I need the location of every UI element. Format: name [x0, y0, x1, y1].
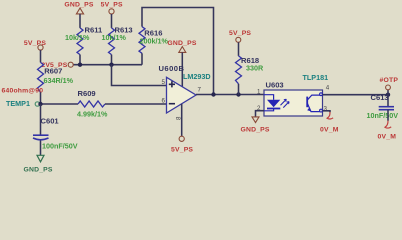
- wire opto pin4 to OTP: [323, 94, 389, 96]
- wire R613 bottom lead: [111, 55, 113, 65]
- resistor R609: [77, 89, 108, 119]
- svg-text:R607: R607: [44, 66, 62, 75]
- wire op-amp pin4 to ground: [181, 52, 183, 87]
- svg-text:U603: U603: [266, 81, 284, 90]
- power port 2V5_PS: [41, 62, 73, 69]
- capacitor C601: [33, 104, 78, 151]
- svg-text:10k/1%: 10k/1%: [102, 33, 127, 42]
- optocoupler U603 TLP181: [257, 73, 330, 116]
- capacitor C613: [367, 93, 399, 120]
- ground 0V_M at opto pin3: [320, 112, 339, 133]
- wire C601 bottom lead: [40, 141, 42, 156]
- node junction feedback/output: [211, 92, 215, 96]
- wire R609 to minus input: [105, 103, 167, 105]
- phototransistor inside opto: [307, 93, 322, 112]
- svg-text:200k/1%: 200k/1%: [140, 37, 169, 46]
- svg-text:5V_PS: 5V_PS: [171, 147, 193, 154]
- svg-text:5V_PS: 5V_PS: [229, 30, 251, 37]
- svg-text:640ohm@90: 640ohm@90: [2, 88, 44, 95]
- svg-text:TLP181: TLP181: [303, 73, 329, 82]
- resistor R611: [65, 26, 103, 55]
- wire R611 bottom lead: [79, 55, 81, 65]
- svg-text:GND_PS: GND_PS: [241, 126, 270, 133]
- svg-text:R609: R609: [78, 89, 96, 98]
- svg-text:U600B: U600B: [159, 64, 185, 73]
- op-amp U600B: [159, 64, 211, 120]
- wire R618 bottom lead: [238, 84, 240, 95]
- svg-text:634R/1%: 634R/1%: [44, 76, 74, 85]
- svg-text:5V_PS: 5V_PS: [101, 1, 123, 8]
- resistor R607: [38, 62, 74, 92]
- wire C613 bottom lead: [387, 110, 389, 121]
- node junction C613/OTP: [386, 93, 390, 97]
- svg-text:0V_M: 0V_M: [378, 133, 397, 140]
- resistor R616: [139, 27, 168, 54]
- node junction R618/output: [236, 92, 240, 96]
- resistor R618: [236, 56, 264, 84]
- power 5V_PS below op-amp: [171, 136, 193, 154]
- svg-text:0V_M: 0V_M: [320, 126, 339, 133]
- svg-text:7: 7: [198, 86, 202, 93]
- wire: feedback top loop R616 to output: [142, 8, 214, 95]
- wire opto pin2 to ground: [256, 111, 265, 117]
- wire 2V5 row: [73, 64, 142, 66]
- svg-text:4.99k/1%: 4.99k/1%: [77, 110, 108, 119]
- wire TEMP1 row: [40, 103, 78, 105]
- node junction R613/2V5: [109, 62, 113, 66]
- svg-text:4: 4: [326, 85, 330, 92]
- svg-text:LM293D: LM293D: [183, 72, 211, 81]
- node junction TEMP1/R607/C601: [38, 102, 42, 106]
- port #OTP: [380, 77, 399, 95]
- svg-text:100nF/50V: 100nF/50V: [42, 142, 78, 151]
- wire op-amp pin8 to 5V: [181, 104, 183, 136]
- svg-text:10k/1%: 10k/1%: [65, 33, 90, 42]
- svg-text:GND_PS: GND_PS: [24, 166, 53, 173]
- wire opto pin3 stub: [323, 111, 331, 112]
- wire plus-input from 2V5 node: [112, 65, 167, 86]
- svg-text:#OTP: #OTP: [380, 77, 399, 84]
- wire output row: [196, 94, 264, 96]
- power 5V_PS left: [24, 40, 46, 50]
- wire R618 top lead: [238, 42, 240, 56]
- power 5V_PS top: [101, 1, 123, 14]
- svg-text:GND_PS: GND_PS: [64, 1, 93, 8]
- node junction R611/2V5: [78, 62, 82, 66]
- svg-text:TEMP1: TEMP1: [6, 99, 30, 108]
- svg-text:5: 5: [162, 79, 166, 86]
- wire R616 bottom lead: [141, 53, 143, 64]
- wire R607 top lead: [40, 50, 42, 62]
- ground GND_PS below opto pin2: [241, 117, 270, 133]
- ground GND_PS above op-amp: [167, 40, 196, 52]
- LED inside opto: [264, 95, 289, 111]
- svg-text:330R: 330R: [246, 64, 264, 73]
- port TEMP1: [6, 99, 40, 108]
- svg-text:1: 1: [257, 89, 261, 96]
- wire R607 bottom lead: [40, 92, 42, 104]
- wire R613 top lead: [111, 14, 113, 28]
- svg-text:6: 6: [162, 97, 166, 104]
- resistor R613: [102, 26, 133, 55]
- svg-text:C601: C601: [41, 116, 60, 125]
- ground GND_PS top-left: [64, 1, 93, 14]
- wire R611 top lead: [79, 14, 81, 28]
- power 5V_PS above R618: [229, 30, 251, 43]
- svg-text:10nF/50V: 10nF/50V: [367, 111, 399, 120]
- ground GND_PS below C601: [24, 155, 53, 173]
- ground 0V_M below C613: [378, 121, 397, 141]
- svg-text:C613: C613: [371, 93, 389, 102]
